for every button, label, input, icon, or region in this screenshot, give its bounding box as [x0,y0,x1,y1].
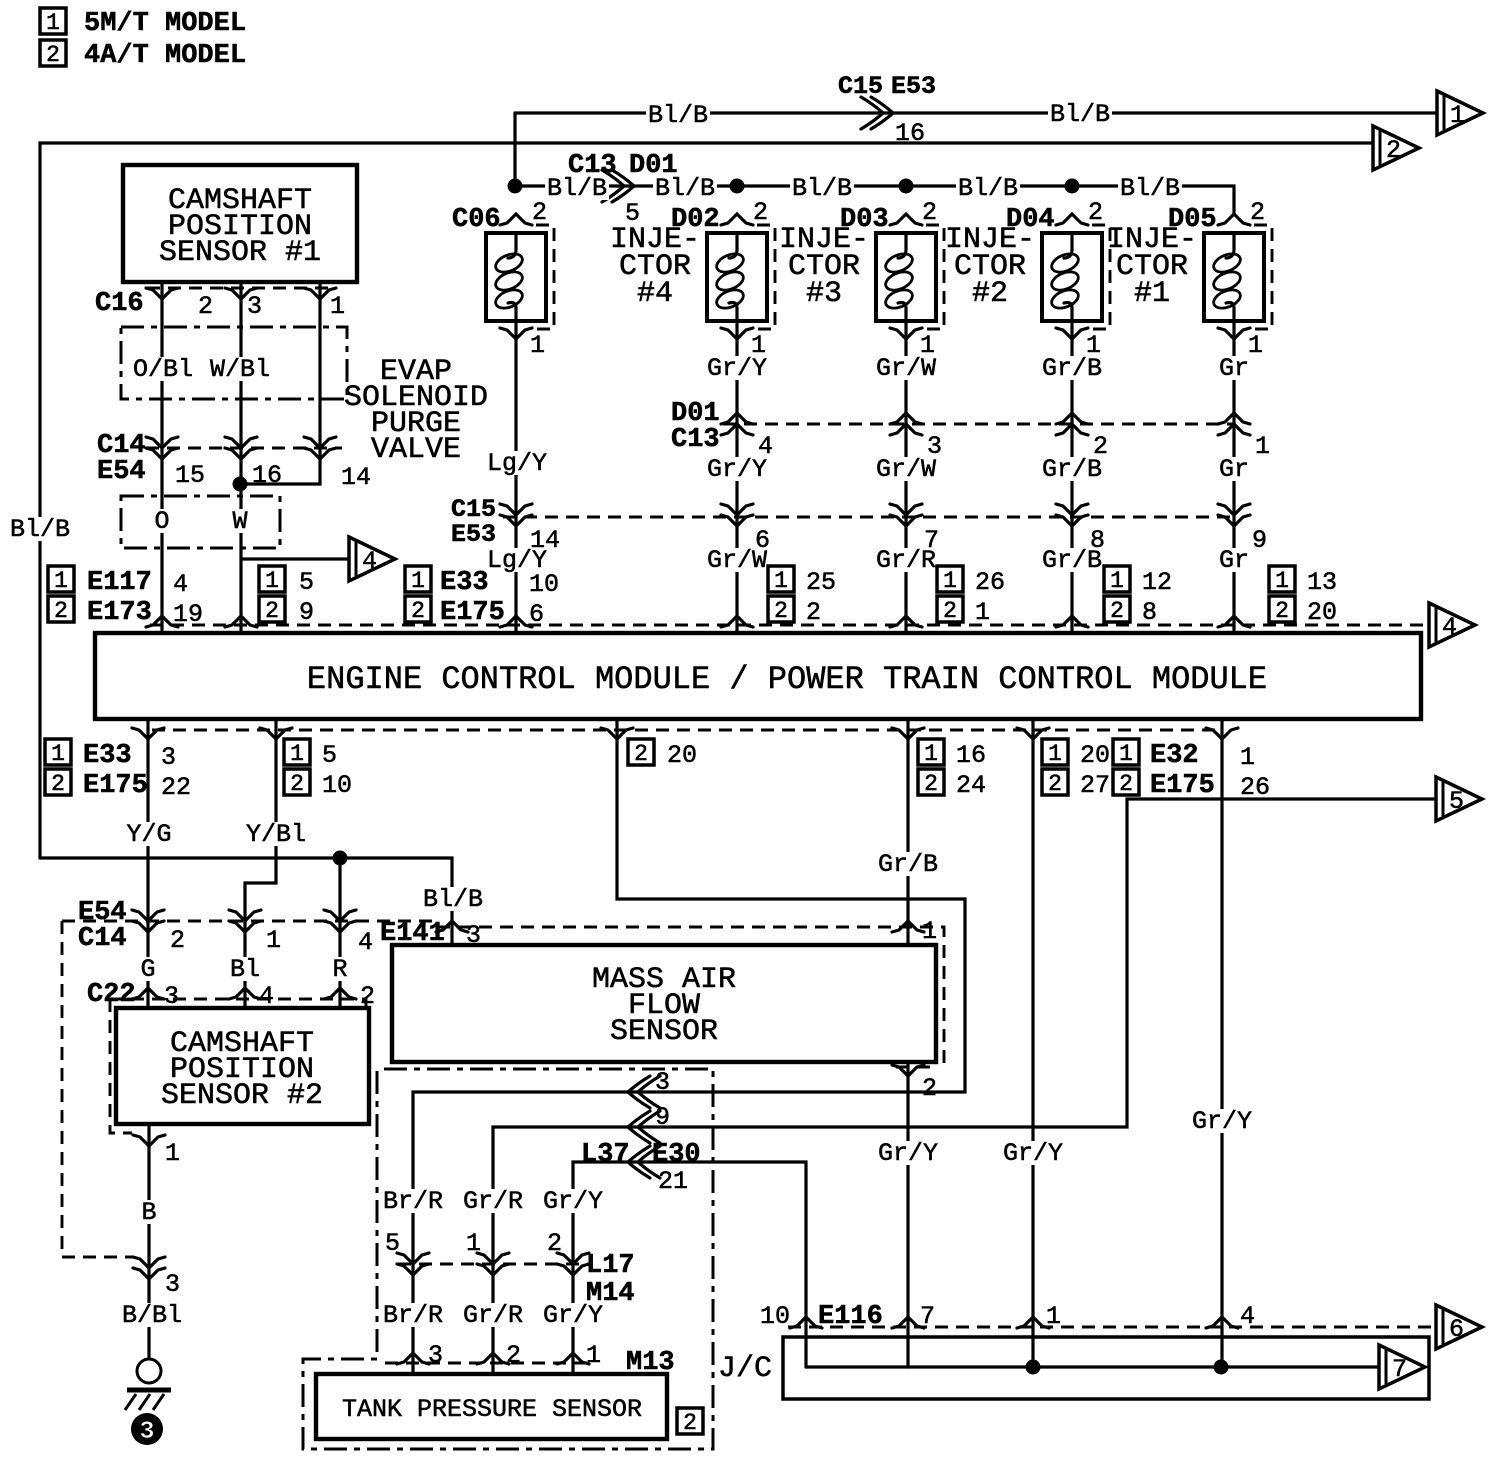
svg-text:2: 2 [1110,598,1124,624]
svg-text:2: 2 [943,598,957,624]
svg-text:1: 1 [586,1341,601,1370]
injector coil D03 [876,225,944,329]
svg-text:1: 1 [330,292,345,321]
wire B from camshaft sensor 2 pin 1 to ground [147,1124,150,1357]
svg-text:7: 7 [920,1302,935,1331]
connector C16 pin 3 [225,288,257,299]
connector C22 pin 2 [324,988,356,999]
ECM bottom pin labels 20/27 [1042,739,1110,770]
wire sensor1 pin2 O/Bl column [160,282,163,633]
junction connector bus wire [806,1365,1379,1368]
svg-text:2: 2 [1093,432,1108,461]
in-line connector pin 3 symbol [628,1076,660,1108]
connector pin 3 on B wire [133,1257,165,1279]
svg-text:E175: E175 [1150,771,1215,801]
injector D03 label [779,223,869,311]
svg-text:10: 10 [322,771,352,800]
svg-text:1: 1 [1046,1302,1061,1331]
svg-text:2: 2 [922,1074,937,1103]
offpage arrow 4 (right) [1429,603,1475,647]
injector D02 label [610,223,700,311]
junction connector box [783,1337,1429,1399]
connector C14/E54 pin 14 [304,437,336,459]
engine control module / power train control module [95,633,1421,719]
svg-text:1: 1 [46,10,60,36]
svg-text:Gr/Y: Gr/Y [1192,1107,1252,1136]
MAF pin 2 connector [896,1066,938,1069]
svg-text:Gr: Gr [1219,546,1249,575]
svg-text:1: 1 [51,741,65,767]
ECM bottom connector row dashed link [152,729,1222,732]
injector coil D05 [1204,225,1272,329]
junction bus / injector 2 [1065,179,1080,194]
ground G101 [125,1359,171,1410]
svg-text:10: 10 [529,570,559,599]
wire Y/G from ECM to camshaft sensor 2 pin G [146,719,149,1008]
connector L17/M14 pin 2 [557,1253,589,1275]
svg-text:20: 20 [1080,741,1110,770]
connector C15/E53 pin 6 symbol [721,504,753,526]
legend marker 1 : 5M/T MODEL [40,8,246,39]
svg-text:Br/R: Br/R [383,1187,443,1216]
svg-text:Bl/B: Bl/B [792,174,852,203]
ECM top pin connector at x=737 [721,616,753,627]
injector 1 (D05) [1168,198,1265,235]
svg-text:1: 1 [290,741,304,767]
connector E54/C14 pin 4 [324,910,356,932]
connector C15/E53 pin 16 symbol [861,97,893,129]
wire sensor1 pin1 column [240,282,320,484]
connector L17/M14 pin 1 [477,1253,509,1275]
wire injector D03 output [904,321,907,633]
EVAP solenoid coil C06 [486,225,554,329]
ECM top pin labels E117/E173 [48,566,188,599]
svg-text:J/C: J/C [718,1352,772,1386]
injector D03 pin2 connector [890,214,922,225]
svg-text:E54: E54 [97,457,146,487]
svg-text:2: 2 [532,198,547,227]
svg-text:1: 1 [920,331,935,360]
svg-text:19: 19 [173,600,203,629]
wire from MAF pin 2 down to junction connector [906,1062,909,1367]
svg-text:2: 2 [1119,771,1133,797]
svg-text:E53: E53 [891,72,936,101]
dashed bracket from E54/C14 row to pin3 connector [62,921,134,1257]
svg-text:#3: #3 [806,277,842,311]
camshaft position sensor #1 [123,165,357,282]
wire sensor1 pin3 W/Bl column [239,282,242,633]
connector L17/M14 row [398,1263,588,1266]
offpage arrow 7 [1379,1345,1425,1389]
svg-text:Gr: Gr [1219,354,1249,383]
svg-text:Bl/B: Bl/B [655,174,715,203]
svg-text:ENGINE CONTROL MODULE / POWER: ENGINE CONTROL MODULE / POWER TRAIN CONT… [307,661,1267,698]
svg-text:2: 2 [506,1341,521,1370]
connector C22 pin 3 [132,988,164,999]
connector D01/C13 labels [671,399,720,455]
injector coil D04 [1042,225,1110,329]
svg-text:E32: E32 [1150,741,1199,771]
ECM top pin connector at x=906 [890,616,922,627]
svg-text:E175: E175 [83,771,148,801]
svg-text:L37: L37 [581,1140,630,1170]
svg-text:24: 24 [956,771,986,800]
svg-text:C22: C22 [87,980,136,1010]
svg-text:2: 2 [634,741,648,767]
wire injector D02 output [735,321,738,633]
svg-text:E117: E117 [87,568,152,598]
svg-text:3: 3 [247,292,262,321]
ECM top pin labels 13/20 [1269,566,1337,597]
svg-text:6: 6 [755,526,770,555]
wire Bl/B horizontal run to MAF [40,858,452,945]
svg-text:20: 20 [1307,598,1337,627]
junction bus / injector 3 [899,179,914,194]
connector L17/M14 pin 5 [397,1253,429,1275]
ECM top pin connector at x=1072 [1056,616,1088,627]
connector E116 pin 10 [790,1317,822,1328]
injector coil D02 [707,225,775,329]
junction W/Bl wire / pin1 wire [233,477,248,492]
svg-text:4A/T MODEL: 4A/T MODEL [84,41,246,71]
svg-text:3: 3 [139,1417,154,1446]
svg-text:1: 1 [411,568,425,594]
svg-text:1: 1 [530,331,545,360]
svg-text:1: 1 [975,598,990,627]
connector M13 pin 1 [557,1353,589,1364]
wire W branch to arrow 4 [241,557,349,560]
injector 3 (D03) [840,198,937,235]
svg-text:1: 1 [1450,101,1465,130]
wire Lg/Y from EVAP valve to ECM [514,321,517,633]
svg-text:1: 1 [466,1229,481,1258]
svg-text:Gr/R: Gr/R [463,1301,523,1330]
svg-text:1: 1 [265,568,279,594]
svg-text:Y/G: Y/G [126,820,171,849]
svg-text:13: 13 [1307,568,1337,597]
svg-text:Bl/B: Bl/B [10,515,70,544]
connector C15/E53 pin 8 symbol [1056,504,1088,526]
svg-text:2: 2 [198,292,213,321]
offpage arrow 2 [1373,126,1419,170]
wire injector D05 output [1232,321,1235,633]
svg-text:5: 5 [385,1229,400,1258]
camshaft sensor 2 pin 1 connector [133,1135,165,1146]
svg-text:27: 27 [1080,771,1110,800]
svg-text:Bl/B: Bl/B [547,174,607,203]
svg-text:9: 9 [1252,526,1267,555]
svg-text:12: 12 [1142,568,1172,597]
svg-text:9: 9 [655,1103,670,1132]
svg-text:O: O [154,507,169,536]
svg-text:E175: E175 [440,598,505,628]
ECM top pin labels 26/1 [937,566,1005,597]
connector D01/C13 pin 1 symbol [1218,413,1250,435]
svg-text:1: 1 [1119,741,1133,767]
svg-text:1: 1 [266,926,281,955]
junction bus / EVAP valve [508,179,523,194]
svg-text:2: 2 [753,198,768,227]
svg-text:Bl/B: Bl/B [423,885,483,914]
svg-text:Bl: Bl [230,955,260,984]
svg-text:O/Bl: O/Bl [133,355,193,384]
svg-text:E173: E173 [87,598,152,628]
svg-text:4: 4 [1240,1302,1255,1331]
svg-text:E33: E33 [440,568,489,598]
EVAP valve C06 pin 2 connector [500,214,532,225]
svg-text:W: W [232,507,247,536]
EVAP solenoid purge valve label [344,355,488,467]
offpage arrow 4 (to ECM area) [349,537,395,581]
connector C22 pin 4 [229,988,261,999]
ECM top pin labels E33/E175 10/6 [405,566,559,599]
svg-text:2: 2 [1275,598,1289,624]
svg-text:15: 15 [175,461,205,490]
svg-text:1: 1 [1255,432,1270,461]
injector D04 label [945,223,1035,311]
connector C16 (camshaft sensor 1) [147,287,333,290]
junction bus / E116 pin 4 [1214,1360,1229,1375]
svg-text:20: 20 [667,741,697,770]
svg-text:1: 1 [1048,741,1062,767]
injector D04 pin2 connector [1056,214,1088,225]
svg-text:3: 3 [161,743,176,772]
injector 2 (D04) [1006,198,1103,235]
svg-text:Lg/Y: Lg/Y [487,449,547,478]
wire Gr/R from tank sensor to arrow 5 [493,799,1436,1374]
offpage arrow 6 [1436,1305,1482,1349]
svg-text:#2: #2 [972,277,1008,311]
svg-text:2: 2 [683,1410,697,1436]
in-line connector pin 9 symbol [628,1111,660,1143]
wire injector D04 output [1070,321,1073,633]
svg-text:2: 2 [1386,136,1401,165]
ECM top pin labels 25/2 [768,566,836,597]
connector E116 pin 7 [892,1317,924,1328]
svg-text:G: G [140,955,155,984]
svg-text:14: 14 [530,526,560,555]
connector E54/C14 pin 2 [132,910,164,932]
svg-text:L17: L17 [586,1251,635,1281]
connector E116 pin 1 [1017,1317,1049,1328]
svg-text:22: 22 [161,773,191,802]
ECM bottom pin labels E33 3 / E175 22 [45,739,176,772]
svg-text:E30: E30 [652,1140,701,1170]
svg-text:SENSOR #1: SENSOR #1 [159,236,321,270]
ECM top pin connector at x=1234 [1218,616,1250,627]
injector D03 pin1 connector [890,328,922,339]
connector E54/C14 (lower) [62,920,437,923]
wire Bl/B to arrow 1 (top horizontal) [515,111,1437,114]
EVAP valve C06 pin 1 connector [500,328,532,339]
svg-text:14: 14 [341,463,371,492]
wire color box O/Bl W/Bl (dash-dot) [121,327,347,399]
svg-text:5M/T MODEL: 5M/T MODEL [84,9,246,39]
svg-text:Y/Bl: Y/Bl [246,820,306,849]
offpage arrow 1 [1437,91,1483,135]
svg-text:E116: E116 [818,1302,883,1332]
wire Gr/Y from ECM E32-1/E175-26 to E116 pin 4 [1220,719,1223,1367]
svg-text:Br/R: Br/R [383,1301,443,1330]
injector D04 pin1 connector [1056,328,1088,339]
svg-text:3: 3 [927,432,942,461]
svg-text:Gr/B: Gr/B [878,850,938,879]
svg-text:Bl/B: Bl/B [1050,100,1110,129]
svg-text:2: 2 [922,198,937,227]
ECM top pin connector at x=162 [146,616,178,627]
connector L37/E30 pin 21 symbol [628,1146,660,1178]
svg-text:7: 7 [1392,1355,1407,1384]
svg-text:2: 2 [51,771,65,797]
svg-text:4: 4 [362,547,377,576]
svg-text:6: 6 [1449,1315,1464,1344]
connector C15/E53 pin 7 symbol [890,504,922,526]
junction Bl/B / R wire [333,851,348,866]
ECM bottom pin labels 5/10 [284,739,337,770]
ECM bottom pin connector at x=908 [892,728,924,739]
svg-text:3: 3 [655,1068,670,1097]
mass air flow sensor [392,945,936,1062]
svg-text:1: 1 [1110,568,1124,594]
connector M13 pin 3 [397,1353,429,1364]
connector C14/E54 pin 15 [146,437,178,459]
svg-text:C15: C15 [838,72,883,101]
wire color box O / W (dash-dot) [121,496,280,548]
connector E54/C14 pin 1 [229,910,261,932]
svg-text:1: 1 [54,568,68,594]
junction bus / injector 4 [730,179,745,194]
connector D01/C13 pin 3 symbol [890,413,922,435]
svg-text:Gr/R: Gr/R [463,1187,523,1216]
svg-text:R: R [332,955,347,984]
ECM top pin connector at x=241 [225,616,257,627]
connector C16 pin 1 [304,288,336,299]
svg-text:Gr: Gr [1219,455,1249,484]
svg-text:Bl/B: Bl/B [1120,174,1180,203]
svg-text:8: 8 [1090,526,1105,555]
svg-text:7: 7 [924,526,939,555]
ground reference marker 3 [131,1413,163,1446]
wire Y/Bl from ECM to camshaft sensor 2 pin Bl [245,719,276,1008]
svg-text:2: 2 [806,598,821,627]
svg-text:9: 9 [299,598,314,627]
legend marker 2 : 4A/T MODEL [40,40,246,71]
svg-text:E33: E33 [83,741,132,771]
svg-text:TANK PRESSURE SENSOR: TANK PRESSURE SENSOR [342,1395,642,1424]
connector C16 pin 2 [146,288,178,299]
connector D01/C13 pin 2 symbol [1056,413,1088,435]
svg-text:1: 1 [1240,743,1255,772]
svg-text:4: 4 [758,432,773,461]
tank pressure sensor region (dash-dot boundary) [303,1069,713,1449]
ECM bottom pin connector at x=1222 [1206,728,1238,739]
svg-text:E53: E53 [451,520,496,549]
svg-text:VALVE: VALVE [371,433,461,467]
connector M13 pin 2 [477,1353,509,1364]
svg-text:8: 8 [1142,598,1157,627]
model marker 2 (tank sensor) [677,1408,703,1436]
ECM bottom pin connector at x=1033 [1017,728,1049,739]
ECM bottom pin label 2-20 [628,739,697,770]
svg-text:16: 16 [252,461,282,490]
svg-text:2: 2 [411,598,425,624]
svg-text:4: 4 [1442,613,1457,642]
connector M13 row [385,1362,590,1365]
svg-text:Bl/B: Bl/B [648,101,708,130]
injector D02 pin1 connector [721,328,753,339]
connector C15/E53 row dashed link [503,516,1234,519]
ECM top pin labels 5/9 [259,566,314,597]
svg-text:1: 1 [1086,331,1101,360]
svg-text:SENSOR #2: SENSOR #2 [161,1079,323,1113]
injector D05 label [1107,223,1197,311]
connector C15/E53 pin 9 symbol [1218,504,1250,526]
injector 4 (D02) [671,198,768,235]
tank pressure sensor [316,1374,667,1439]
svg-text:6: 6 [529,600,544,629]
connector E116 row to arrow 6 [788,1326,1433,1329]
svg-text:1: 1 [751,331,766,360]
svg-text:1: 1 [1275,568,1289,594]
svg-text:10: 10 [760,1302,790,1331]
svg-text:3: 3 [165,1270,180,1299]
svg-text:2: 2 [547,1229,562,1258]
svg-text:C14: C14 [78,924,127,954]
connector C14/E54 (upper) [146,447,342,450]
svg-text:2: 2 [774,598,788,624]
svg-text:2: 2 [1088,198,1103,227]
svg-text:21: 21 [658,1167,688,1196]
offpage arrow 5 [1436,777,1482,821]
wire Gr/B from ECM to MAF pin 1 [906,719,909,945]
injector D02 pin2 connector [721,214,753,225]
svg-text:C06: C06 [452,205,501,235]
connector C14/E54 pin 16 [225,437,257,459]
wire Bl/B injector supply bus [515,113,1234,214]
svg-text:5: 5 [1449,787,1464,816]
svg-text:2: 2 [265,598,279,624]
svg-text:1: 1 [165,1139,180,1168]
svg-text:2: 2 [170,926,185,955]
wire Gr/Y from ECM 1-20/2-27 to E116 pin 1 [1031,719,1034,1367]
svg-text:3: 3 [428,1341,443,1370]
svg-text:Gr/Y: Gr/Y [878,1139,938,1168]
injector D05 pin2 connector [1218,214,1250,225]
svg-text:C16: C16 [95,289,144,319]
svg-text:Bl/B: Bl/B [958,174,1018,203]
connector E116 pin 4 [1206,1317,1238,1328]
svg-text:2: 2 [1048,771,1062,797]
svg-text:2: 2 [290,771,304,797]
svg-text:16: 16 [895,119,925,148]
svg-text:B/Bl: B/Bl [122,1301,182,1330]
svg-text:4: 4 [358,928,373,957]
svg-text:5: 5 [299,568,314,597]
svg-text:25: 25 [806,568,836,597]
svg-text:26: 26 [975,568,1005,597]
svg-text:Gr/Y: Gr/Y [543,1301,603,1330]
svg-text:2: 2 [54,598,68,624]
connector C15/E53 pin 14 [500,504,532,526]
svg-text:B: B [141,1198,156,1227]
connector D01/C13 pin 4 symbol [721,413,753,435]
ECM bottom pin connector at x=276 [260,728,292,739]
wire Bl/B left bus: top horizontal to arrow 2, left vertical down [40,143,1373,858]
ECM bottom pin labels 16/24 [918,739,986,770]
svg-text:#4: #4 [637,277,673,311]
ECM bottom pin labels E32 1 / E175 26 [1113,739,1255,772]
svg-text:5: 5 [322,741,337,770]
